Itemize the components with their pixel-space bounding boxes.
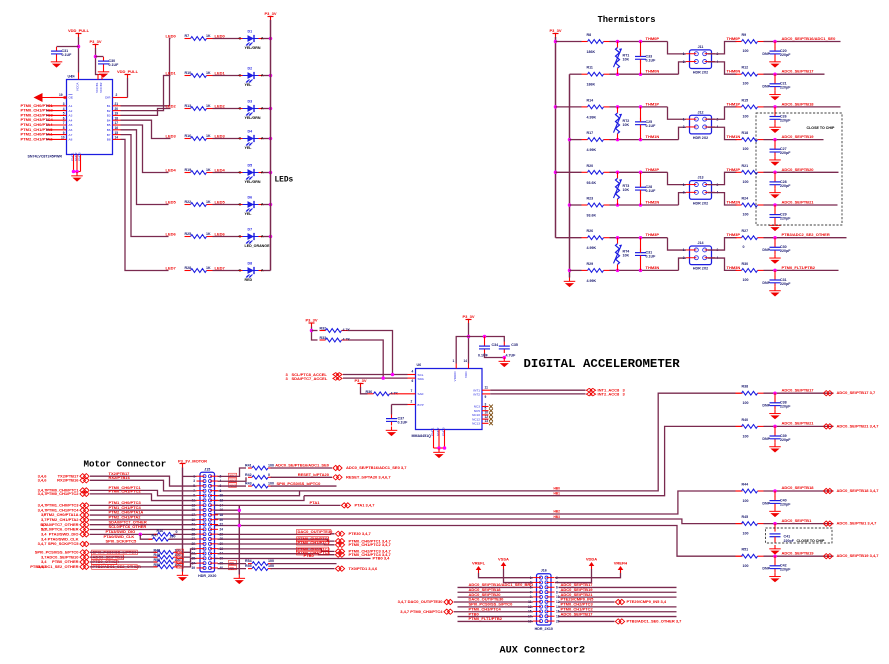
ground R44 filter <box>769 508 781 518</box>
svg-text:ADC0_SE/PTB18: ADC0_SE/PTB18 <box>782 485 815 490</box>
junction filter cap row 3 <box>773 138 777 142</box>
wire R45 to off-page <box>764 523 834 525</box>
connector J15 HDR_2X20 <box>191 467 223 578</box>
svg-text:B6: B6 <box>107 128 111 132</box>
resistor R9 100 <box>736 33 764 53</box>
wire R38 to off-page <box>764 392 834 394</box>
svg-text:P3_3V: P3_3V <box>354 378 366 383</box>
wire VDDIO branch <box>456 337 468 364</box>
svg-text:220pF: 220pF <box>784 539 795 543</box>
boxed net label PTM0_CH3/PTC4B <box>297 550 331 555</box>
off-page connector PTB3/ADC1_SE2_OTHER <box>80 564 89 569</box>
pin stub VDDIO <box>455 364 457 369</box>
net label ADC0_SE/PTB18 <box>782 485 815 490</box>
wire R32 to SCL <box>348 331 393 375</box>
page refs PTM1_CH1/PTC4 <box>38 507 48 512</box>
svg-text:ADC0_SE/PTB17 3,7: ADC0_SE/PTB17 3,7 <box>837 390 876 395</box>
svg-text:220pF: 220pF <box>780 282 791 286</box>
svg-text:P3_3V: P3_3V <box>462 314 474 319</box>
capacitor C37 0.1UF <box>386 415 408 426</box>
off-page connector SPI0_PCS0/SS_b/PTC0 <box>80 550 89 555</box>
net label SPI0_PCS0/SS_b/PTC0 <box>277 481 322 486</box>
svg-text:7: 7 <box>63 121 65 125</box>
net label ADC0_SE/PTB1 <box>782 518 813 523</box>
far net name SDA0/PTC7_OTHER <box>40 522 78 527</box>
wire R51 to off-page <box>764 555 834 557</box>
wire VDD feed <box>468 323 470 364</box>
wire SWD_CLK branch <box>140 534 152 539</box>
wire R27 to net PTB3/ADC2_SE2_OTHER <box>764 237 847 239</box>
svg-text:CLOSE TO CHIP: CLOSE TO CHIP <box>807 126 835 130</box>
junction VDD/VDDIO <box>467 335 471 339</box>
svg-text:B7: B7 <box>107 133 111 137</box>
boxed net label PTB3/ADC1_SE2_OTHER <box>92 564 141 569</box>
svg-text:HB0: HB0 <box>554 486 561 490</box>
svg-text:THM2P: THM2P <box>727 167 741 172</box>
svg-text:R53: R53 <box>154 563 161 567</box>
junction LED bus row 1 <box>269 74 273 78</box>
junction N row cap 1 <box>639 72 643 76</box>
svg-text:4.99K: 4.99K <box>587 148 597 152</box>
svg-text:1K: 1K <box>206 71 211 75</box>
svg-text:LEDs: LEDs <box>275 177 294 185</box>
svg-text:CLOSE TO CHIP: CLOSE TO CHIP <box>797 539 825 543</box>
svg-text:39: 39 <box>191 566 195 570</box>
wire cap leads 3 <box>640 172 642 187</box>
power symbol VREFH <box>614 561 628 574</box>
net label PTM0_FLT1/PTB2 <box>782 265 816 270</box>
net label THM0N right <box>727 69 741 74</box>
wire thermistor 3.3V bus <box>555 37 557 238</box>
junction filter cap row 6 <box>773 236 777 240</box>
svg-text:R15: R15 <box>742 98 749 102</box>
wire SPI0_PCS0/SS_b/PTC0 to R48 <box>90 551 158 553</box>
wire J15 to R55 <box>218 568 247 570</box>
net label PTA0/SWD_CLK <box>104 534 135 539</box>
svg-text:LED7: LED7 <box>166 266 177 271</box>
off-page connector INT2 <box>586 392 595 396</box>
junction LED bus row 3 <box>269 137 273 141</box>
svg-text:R51: R51 <box>742 548 749 552</box>
svg-text:C35: C35 <box>511 343 518 347</box>
power flag P3_3V (thermistor bus) <box>549 28 561 37</box>
svg-text:100: 100 <box>268 464 274 468</box>
svg-text:C: C <box>239 74 242 78</box>
svg-text:R20: R20 <box>587 164 594 168</box>
far net name PTM1_CH1/PTC4 <box>46 507 79 512</box>
wire VDD_PULL to DIR <box>127 78 129 98</box>
off-page connector ADC0_SE/PTB17 <box>823 391 832 396</box>
wire resistor to LED D4 <box>213 138 239 140</box>
svg-text:A8: A8 <box>69 138 73 142</box>
svg-text:THM1N: THM1N <box>646 134 660 139</box>
wire ADC0_SE/PTB21 aux right <box>559 596 677 598</box>
svg-text:P3_3V: P3_3V <box>549 28 561 33</box>
svg-text:PTM0_CH1/PTC2: PTM0_CH1/PTC2 <box>46 491 79 496</box>
svg-text:PTE30 3,4,7: PTE30 3,4,7 <box>349 531 372 536</box>
svg-text:C: C <box>239 269 242 273</box>
svg-text:ADC0_SE/PTB21 3,4,7: ADC0_SE/PTB21 3,4,7 <box>837 423 880 428</box>
svg-text:INT2_ACC8: INT2_ACC8 <box>598 392 621 397</box>
wire U4 B7 to LED6 row <box>121 135 169 237</box>
wire 3.3V to R26 <box>556 237 582 239</box>
svg-text:THM2P: THM2P <box>646 167 660 172</box>
svg-text:3: 3 <box>63 102 65 106</box>
svg-text:R26: R26 <box>587 229 594 233</box>
svg-text:1: 1 <box>683 248 685 252</box>
svg-text:YEL: YEL <box>245 212 253 216</box>
wire PTM1_CH1/PTC4 to J15 <box>90 509 197 511</box>
resistor R8 186K <box>582 33 610 54</box>
pin number SDA 6 <box>412 379 414 383</box>
svg-text:186K: 186K <box>587 50 596 54</box>
svg-text:R38: R38 <box>742 385 749 389</box>
svg-text:P3_3V_MOTOR: P3_3V_MOTOR <box>178 459 207 464</box>
svg-text:LED_ORANGE: LED_ORANGE <box>245 244 271 248</box>
net label ADC0_SE/PTB20 (aux left) <box>469 592 502 597</box>
ground thermistor return bus <box>564 278 576 288</box>
NA box R49 <box>177 554 184 559</box>
svg-text:2: 2 <box>411 400 413 404</box>
svg-text:R32: R32 <box>320 327 327 331</box>
svg-text:R54: R54 <box>245 559 252 563</box>
boxed net label SPI0_PCS0/SS_b/PTC0 <box>92 550 138 555</box>
wire SPI0_SCK/PTC5 to J15 <box>90 543 197 545</box>
svg-text:220pF: 220pF <box>780 217 791 221</box>
NA box pin6 <box>229 483 237 488</box>
svg-text:PTM0_FLT1/PTB2: PTM0_FLT1/PTB2 <box>782 265 816 270</box>
net label PTM2_CH0/PTA1A (motor) <box>109 510 144 515</box>
off-page connector TX2/PTB17 (motor left) <box>80 474 89 479</box>
wire return to R17 <box>570 139 582 141</box>
wire J15 to PTM0_CH1/PTC2B <box>218 543 335 546</box>
wire R47 to pin27 <box>169 538 197 540</box>
ground R45 filter <box>769 545 781 555</box>
svg-text:ADC0_SE/PTB17: ADC0_SE/PTB17 <box>782 69 815 74</box>
wire R8 to cap node <box>610 41 668 43</box>
svg-text:DNP: DNP <box>762 502 770 506</box>
junction C34 tap <box>483 335 487 339</box>
wire ADC0_SE/PTB20 aux <box>458 596 534 598</box>
svg-text:B5: B5 <box>107 123 111 127</box>
svg-text:8: 8 <box>556 590 558 594</box>
wire cap leads b 3 <box>640 190 642 205</box>
svg-text:A3: A3 <box>69 114 73 118</box>
svg-text:LED1: LED1 <box>215 71 226 76</box>
svg-text:2: 2 <box>116 93 118 97</box>
svg-text:10K: 10K <box>623 188 630 192</box>
svg-text:R23: R23 <box>587 197 594 201</box>
power flag VDD_PULL (U4 DIR) <box>117 69 139 78</box>
svg-text:R46: R46 <box>157 529 164 533</box>
filter capacitor C28 0.1UF <box>635 183 656 194</box>
svg-text:R42: R42 <box>245 473 252 477</box>
svg-text:DNP: DNP <box>762 248 770 252</box>
junction VDD_PULL/C31 <box>77 45 81 49</box>
filter capacitor C26 220pF <box>770 112 792 123</box>
svg-text:THM0P: THM0P <box>646 36 660 41</box>
boxed net label PTB0_OTHER <box>92 559 120 564</box>
svg-text:YEL/GRN: YEL/GRN <box>245 116 261 120</box>
junction bus pin16 <box>238 508 242 512</box>
net label THM2P <box>646 167 660 172</box>
off-page connector SDA <box>333 377 342 381</box>
filter capacitor C41 220pF (close to chip) <box>770 534 795 543</box>
svg-text:BYP: BYP <box>418 403 424 407</box>
svg-text:ADC0_SE/PTB19: ADC0_SE/PTB19 <box>782 134 815 139</box>
svg-text:D3: D3 <box>248 100 253 104</box>
thermistor RT1 10K <box>614 42 630 75</box>
net label PTM1_CH1/PTA5 (U4 A6) <box>21 127 54 132</box>
svg-text:LED0: LED0 <box>166 34 177 39</box>
svg-text:1K: 1K <box>206 168 211 172</box>
junction SWD_DIO branch <box>139 533 143 537</box>
wire THM2N to J13 pin3 <box>679 193 687 205</box>
wire cap leads b 1 <box>640 59 642 74</box>
net text ADC0_SE/PTB18 right <box>837 488 880 493</box>
pin number BYP 2 <box>411 400 413 404</box>
net stub HB0 <box>554 486 561 490</box>
resistor R22 1K <box>185 200 213 206</box>
off-page connector ADC0_SE/PTB10 <box>80 555 89 560</box>
wire R30 to net PTM0_FLT1/PTB2 <box>764 269 839 271</box>
wire R36 to SA0 <box>396 393 416 395</box>
wire decoupling branch <box>469 337 505 342</box>
pin stub NC2 <box>482 410 489 412</box>
svg-text:0.1UF: 0.1UF <box>646 58 657 62</box>
far net name SPI0_SCK/PTC5 <box>48 541 79 546</box>
wire R26 to cap node <box>610 237 668 239</box>
ground filter row 5 <box>769 222 781 232</box>
svg-text:0: 0 <box>176 530 178 534</box>
svg-text:R47: R47 <box>152 534 159 538</box>
svg-text:VDD_PULL: VDD_PULL <box>117 69 139 74</box>
IC U6 MMA8451Q accelerometer <box>412 363 483 438</box>
off-page connector PTM0_CH0/PTC1B <box>335 539 344 544</box>
wire return to R29 <box>570 269 582 271</box>
svg-text:YEL: YEL <box>245 146 253 150</box>
wire R46 to pin25 <box>174 533 197 535</box>
ground R38 filter <box>769 410 781 420</box>
svg-text:J11: J11 <box>698 45 704 49</box>
power symbol VREFL <box>472 561 486 574</box>
wire A1 <box>47 105 49 107</box>
net label SCL/PTC8_ACCEL <box>292 372 328 377</box>
wire LED D1 to 3.3V bus <box>263 38 271 40</box>
wire LED D6 to 3.3V bus <box>263 204 271 206</box>
svg-text:YEL/GRN: YEL/GRN <box>245 180 261 184</box>
resistor R13 1K <box>185 104 213 110</box>
svg-text:PTB0: PTB0 <box>304 553 315 558</box>
wire PTB3/ADC1_SE2_OTHER to R53 <box>90 566 158 568</box>
svg-text:R13: R13 <box>185 104 192 108</box>
svg-text:R19: R19 <box>185 168 192 172</box>
svg-text:1K: 1K <box>206 266 211 270</box>
svg-text:THM2N: THM2N <box>646 200 660 205</box>
svg-text:R55: R55 <box>245 564 252 568</box>
connector J13 HDR 2X2 <box>683 176 719 206</box>
wire feed to R44 <box>736 490 743 492</box>
wire J12 pin2 to THM1P right <box>708 107 737 119</box>
page refs SPI0_SCK/PTC5 <box>38 541 48 546</box>
page ref INT2 <box>623 392 626 397</box>
svg-text:ADC0_SE/PTB16/ADC1_SE0 3,7: ADC0_SE/PTB16/ADC1_SE0 3,7 <box>346 465 407 470</box>
wire PTM1_CH0/PTC3 to J15 <box>90 504 197 506</box>
pin number INT1 11 <box>485 386 489 390</box>
svg-text:RESET_b/PTA20: RESET_b/PTA20 <box>298 472 330 477</box>
svg-text:PTM0_FLT1/PTB2: PTM0_FLT1/PTB2 <box>469 616 503 621</box>
svg-text:THM3P: THM3P <box>646 232 660 237</box>
pin number VDD 14 <box>464 359 468 363</box>
ground below C35 <box>499 358 511 368</box>
page ref SCL <box>286 372 289 377</box>
svg-text:3,4,7: 3,4,7 <box>38 541 48 546</box>
page refs DAC0_OUT/PTE30 (aux) <box>398 599 444 604</box>
net label ADC0_SE/PTB19 (aux right) <box>561 587 594 592</box>
junction P row RT 1 <box>616 40 620 44</box>
off-page connector PTM0_CH1/PTC2B <box>335 542 344 547</box>
svg-text:0.1UF: 0.1UF <box>398 421 409 425</box>
no-connect marker on OE <box>34 93 43 102</box>
svg-text:A5: A5 <box>69 123 73 127</box>
junction R44 cap <box>773 489 777 493</box>
wire SDA <box>343 377 408 379</box>
page refs PTM0_CH3/PTC4 (aux) <box>400 609 443 614</box>
wire ADC0_SE/PTB17B aux right <box>559 616 677 618</box>
svg-text:NC13: NC13 <box>472 422 480 426</box>
boxed net label PTM0_CH2/PTC3B <box>297 547 331 552</box>
svg-text:VCCA: VCCA <box>76 82 80 92</box>
svg-text:R49: R49 <box>154 553 161 557</box>
svg-text:ADC0_SE/PTB20: ADC0_SE/PTB20 <box>782 167 815 172</box>
thermistor RT3 10K <box>614 172 630 205</box>
net label LED7 (anode side) <box>215 266 226 271</box>
svg-text:4: 4 <box>63 107 65 111</box>
net label THM0N <box>646 69 660 74</box>
svg-text:1K: 1K <box>206 104 211 108</box>
wire J15 to PTM0_CH3/PTC4B <box>218 554 335 555</box>
svg-text:LED7: LED7 <box>215 266 226 271</box>
svg-text:1K: 1K <box>206 232 211 236</box>
svg-text:RX2/PTB16: RX2/PTB16 <box>109 475 131 480</box>
off-page connector PTM1_CH0/PTC3 (motor left) <box>80 503 89 508</box>
net label THM1N <box>646 134 660 139</box>
junction filter cap row 2 <box>773 105 777 109</box>
wire J11 pin4 to THM0N right <box>708 62 737 74</box>
ground below C30 <box>98 68 110 78</box>
svg-text:U6: U6 <box>417 363 422 367</box>
svg-text:SPI0_SCK/PTC5: SPI0_SCK/PTC5 <box>106 539 137 544</box>
svg-text:PTA1: PTA1 <box>310 500 321 505</box>
svg-text:0.1UF: 0.1UF <box>646 189 657 193</box>
svg-text:ADC0_SE/PTB17: ADC0_SE/PTB17 <box>561 611 594 616</box>
connector J12 HDR 2X2 <box>683 110 719 140</box>
svg-text:LED2: LED2 <box>215 104 226 109</box>
far net name PTM0_CH1/PTC2 <box>46 491 79 496</box>
svg-text:4.99K: 4.99K <box>587 279 597 283</box>
net label PTM0_CH2/PTC3 (U4 A3) <box>21 112 54 117</box>
net label ADC0_SE/PTB18 <box>782 101 815 106</box>
off-page connector ADC0_SE/PTB1 <box>823 521 832 526</box>
ground bus right of J15 <box>234 575 246 585</box>
off-page connector PTM0_CH1/PTC2 (motor left) <box>80 491 89 496</box>
wire R23 to cap node <box>610 204 679 206</box>
net label PTM0_CH2/PTC3 (aux right) <box>561 602 594 607</box>
svg-text:R40: R40 <box>742 418 749 422</box>
svg-text:6: 6 <box>63 116 65 120</box>
ground filter row 3 <box>769 156 781 166</box>
wire U6 GND join <box>434 447 445 449</box>
wire A2 <box>47 110 49 112</box>
net label ADC0_SE/PTB20 <box>782 167 815 172</box>
wire U4 B5 to LED4 row <box>121 125 169 173</box>
svg-text:A2: A2 <box>69 109 73 113</box>
off-page connector ADC0_SE/PTB18 <box>823 488 832 493</box>
far net name PTB3/ADC1_SE2_OTHER <box>30 564 78 569</box>
capacitor C30 0.1UF <box>98 57 119 68</box>
NA box R48 <box>177 549 184 554</box>
svg-text:VSSA: VSSA <box>498 557 509 562</box>
svg-text:100: 100 <box>743 499 749 503</box>
svg-text:R16: R16 <box>185 134 192 138</box>
junction cap ground <box>503 356 507 360</box>
net label PTM2_CH1/PTA2 (U4 A8) <box>21 136 54 141</box>
svg-text:18: 18 <box>220 513 224 517</box>
section title Motor Connector <box>84 459 167 470</box>
net label THM0P <box>646 36 660 41</box>
wire to C31 <box>57 46 79 48</box>
svg-text:0.1UF: 0.1UF <box>109 63 120 67</box>
wire SA0 pullup feed <box>361 387 368 394</box>
boxed net label PTM0_CH1/PTC2B <box>297 540 331 545</box>
junction P row cap 2 <box>639 105 643 109</box>
svg-text:C: C <box>239 171 242 175</box>
power flag VDD_PULL (U4 VCCA) <box>68 28 90 37</box>
svg-text:3,4,7 DAC0_OUT/PTE30: 3,4,7 DAC0_OUT/PTE30 <box>398 599 444 604</box>
svg-text:1: 1 <box>453 359 455 363</box>
svg-text:LED0: LED0 <box>215 34 226 39</box>
wire PTB0 aux <box>458 616 534 618</box>
net text DAC0_OUT/PTE30 <box>349 531 372 536</box>
wire cap lead row 4 <box>774 172 776 178</box>
net label THM1P <box>646 101 660 106</box>
svg-text:HDR_2X10: HDR_2X10 <box>535 627 553 631</box>
net label ADC0_SE/PTB17 (aux right) <box>561 582 594 587</box>
svg-text:HB1: HB1 <box>554 492 561 496</box>
svg-text:C: C <box>239 203 242 207</box>
svg-text:8: 8 <box>63 126 65 130</box>
svg-text:PTM0_CH1/PTC2: PTM0_CH1/PTC2 <box>298 540 331 545</box>
net label THM3N <box>646 265 660 270</box>
resistor R44 100 <box>736 483 764 504</box>
svg-text:PTM0_CH1/PTC2 3,4,7: PTM0_CH1/PTC2 3,4,7 <box>349 542 392 547</box>
wire cap lead R44 <box>774 491 776 497</box>
svg-text:DIR: DIR <box>105 96 111 100</box>
wire U4 B1 to LED0 row <box>121 39 171 106</box>
svg-text:PTB3/ADC2_SE2_OTHER: PTB3/ADC2_SE2_OTHER <box>782 232 830 237</box>
wire J12 pin4 to THM1N right <box>708 127 737 139</box>
wire LED D7 to 3.3V bus <box>263 236 271 238</box>
power symbol VSSA <box>498 557 509 570</box>
junction LED bus row 0 <box>269 37 273 41</box>
svg-text:Thermistors: Thermistors <box>598 15 656 25</box>
wire feed to R45 <box>736 523 743 525</box>
svg-text:186K: 186K <box>587 83 596 87</box>
svg-text:19: 19 <box>115 112 119 116</box>
net label THM3P <box>646 232 660 237</box>
wire VSSA to pin3 <box>504 569 534 583</box>
svg-text:SPI0_SCK/PTC5: SPI0_SCK/PTC5 <box>48 541 79 546</box>
